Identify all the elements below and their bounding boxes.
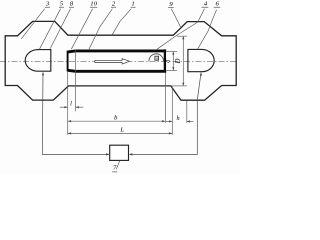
dimension b: [68, 120, 165, 122]
leader 5: [39, 9, 60, 50]
svg-text:7: 7: [113, 165, 117, 172]
tube bottom wall: [68, 70, 167, 71]
leader 4: [157, 9, 205, 50]
right dome electrode: [188, 49, 214, 71]
svg-text:a: a: [156, 57, 158, 61]
flow arrow: [95, 59, 130, 64]
tube top wall: [68, 51, 167, 52]
svg-text:h: h: [177, 115, 180, 122]
leader 7: [116, 161, 119, 170]
svg-text:3: 3: [45, 1, 50, 8]
dimension l: [60, 106, 68, 108]
wire left electrode to box: [42, 72, 44, 75]
svg-text:l: l: [70, 101, 72, 108]
svg-text:5: 5: [60, 1, 64, 8]
svg-text:1: 1: [131, 1, 134, 8]
dimension d: [172, 52, 174, 69]
svg-text:8: 8: [70, 1, 74, 8]
leader 8: [50, 9, 70, 49]
svg-text:L: L: [119, 127, 124, 134]
centerline axis: [0, 60, 238, 62]
wire right electrode to box: [200, 72, 202, 75]
dimension L: [68, 132, 172, 134]
leader 10: [71, 9, 92, 50]
dimension D: [182, 37, 184, 85]
svg-text:4: 4: [204, 1, 208, 8]
leader 2: [89, 9, 112, 50]
extension line dome face: [186, 101, 188, 123]
leader 6: [198, 10, 217, 49]
extension line neck right corner: [171, 86, 173, 135]
svg-text:b: b: [114, 114, 118, 121]
sensor dome: [149, 54, 164, 62]
tube right end wall: [164, 49, 166, 72]
sensor box a: [155, 56, 159, 60]
extension line tube right end: [164, 73, 166, 123]
left dome electrode: [25, 50, 51, 72]
svg-text:6: 6: [216, 1, 220, 8]
tube left end wall: [67, 51, 69, 72]
dimension h: [166, 120, 172, 122]
extension line tube left end: [67, 72, 69, 135]
svg-text:2: 2: [112, 1, 116, 8]
svg-text:10: 10: [90, 1, 97, 8]
tube taper joint line: [75, 50, 77, 112]
leader 3: [21, 9, 44, 39]
body outline: end blocks and neck: [5, 21, 236, 100]
box 7 power source: [110, 145, 129, 160]
leader 9: [171, 9, 181, 29]
leader 1: [112, 9, 131, 35]
svg-text:D: D: [175, 58, 182, 64]
svg-text:9: 9: [169, 1, 173, 8]
